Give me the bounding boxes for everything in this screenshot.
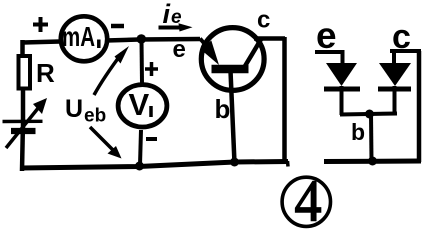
wire battery to bottom — [20, 131, 25, 171]
svg-text:e: e — [173, 36, 186, 63]
diode D2 cathode bar — [378, 87, 411, 92]
wire emitter corner down — [341, 50, 345, 64]
wire rail end hook — [286, 161, 290, 167]
svg-text:e: e — [316, 15, 337, 56]
ammeter mA1 body — [61, 16, 107, 61]
svg-text:U: U — [65, 95, 83, 123]
current arrow ie — [159, 26, 187, 30]
diode D2 triangle — [379, 63, 411, 86]
battery B1 short plate — [11, 128, 36, 134]
wire node to transistor emitter — [139, 37, 200, 42]
node b junction dot — [365, 110, 374, 119]
minus sign ammeter negative — [111, 24, 124, 29]
wire node to voltmeter — [140, 40, 145, 83]
battery B1 long plate — [3, 120, 43, 124]
diode D1 triangle — [326, 63, 357, 86]
svg-text:mA: mA — [62, 21, 95, 52]
wire ammeter to node — [106, 40, 139, 41]
battery variable arrow — [6, 107, 39, 148]
diode D1 cathode bar — [324, 87, 360, 92]
wire voltmeter to bottom — [140, 130, 141, 165]
wire base down — [231, 71, 235, 163]
wire collector corner down — [392, 50, 396, 64]
wire collector top — [254, 36, 285, 41]
wire left vertical to resistor — [20, 40, 25, 58]
svg-text:eb: eb — [84, 106, 106, 127]
wire collector stub — [390, 49, 421, 53]
wire bottom rail right diagram — [324, 159, 421, 165]
transistor Q1 base bar — [212, 65, 249, 74]
wire b node down — [369, 114, 374, 161]
wire right edge of right diagram — [417, 51, 422, 162]
wire top-left horizontal — [23, 42, 60, 43]
node bottom junction dot — [135, 162, 144, 171]
node base bottom dot — [230, 158, 239, 167]
resistor R body — [19, 56, 31, 89]
wire diode D2 down — [393, 86, 397, 114]
transistor Q1 emitter arrow — [200, 39, 209, 50]
svg-text:b: b — [351, 119, 365, 145]
svg-text:c: c — [257, 7, 270, 34]
wire diode D1 down — [340, 86, 344, 115]
transistor Q1 circle — [201, 28, 264, 91]
svg-text:4: 4 — [295, 168, 322, 234]
wire joining diodes — [340, 114, 397, 115]
voltmeter V1 body — [118, 85, 167, 127]
svg-text:R: R — [36, 58, 55, 88]
minus sign voltmeter negative — [146, 137, 157, 141]
leader arrow down to base node — [90, 127, 113, 150]
wire resistor to battery — [21, 88, 26, 131]
plus sign battery positive — [33, 17, 48, 32]
node bottom junction dot right diagram — [368, 157, 377, 166]
svg-text:b: b — [215, 94, 231, 124]
transistor Q1 collector stroke — [245, 39, 262, 67]
leader arrow up to emitter node — [94, 53, 122, 95]
svg-text:i: i — [163, 0, 171, 29]
figure number circle — [282, 177, 330, 226]
wire emitter stub — [315, 50, 344, 54]
svg-text:V: V — [129, 87, 150, 122]
plus sign voltmeter positive — [145, 62, 158, 76]
wire bottom rail left circuit — [21, 162, 288, 169]
wire right edge down — [282, 37, 287, 162]
node emitter junction dot — [137, 34, 147, 44]
